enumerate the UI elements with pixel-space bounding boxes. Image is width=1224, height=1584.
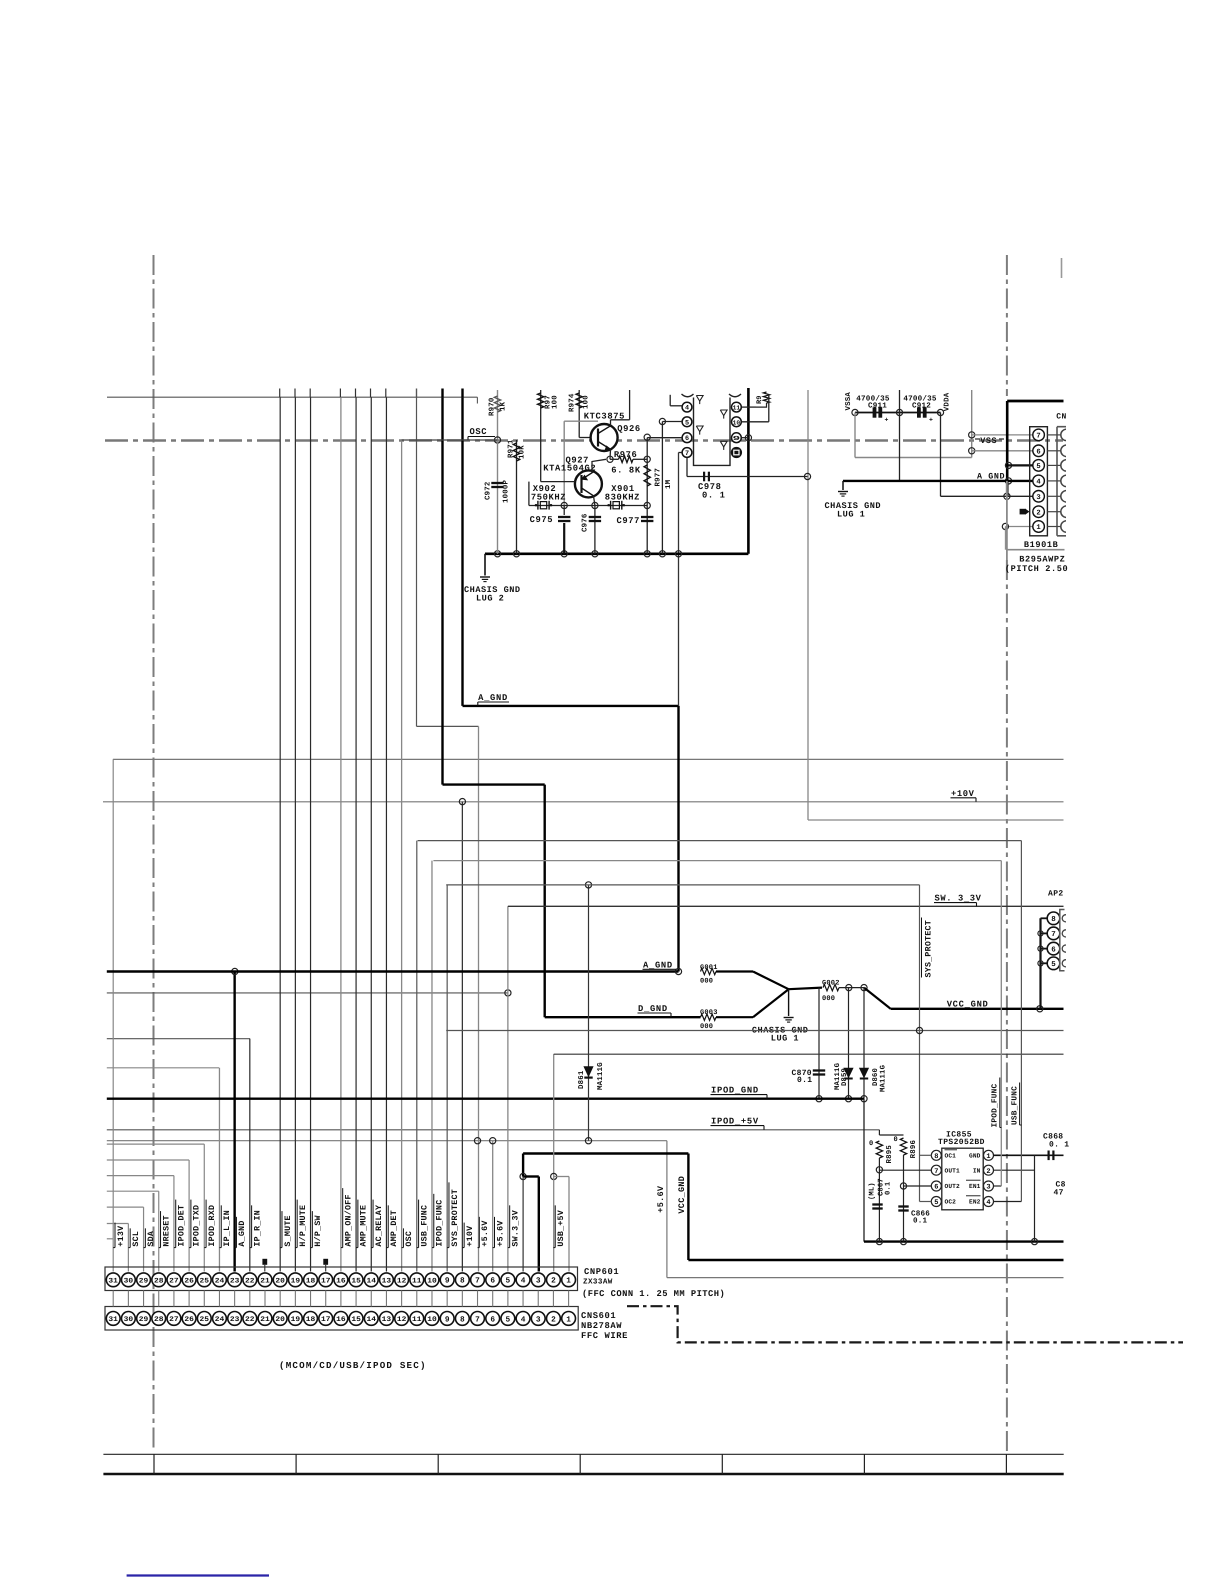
svg-text:OUT2: OUT2 xyxy=(945,1183,960,1190)
svg-text:AC_RELAY: AC_RELAY xyxy=(375,1205,384,1247)
svg-text:000: 000 xyxy=(700,978,713,986)
svg-text:EN2: EN2 xyxy=(969,1199,981,1206)
svg-text:0.1: 0.1 xyxy=(913,1217,928,1226)
svg-text:IPOD_FUNC: IPOD_FUNC xyxy=(436,1200,445,1247)
svg-text:14: 14 xyxy=(367,1316,377,1324)
svg-text:IPOD_FUNC: IPOD_FUNC xyxy=(991,1083,1000,1127)
svg-text:C976: C976 xyxy=(582,513,590,532)
svg-text:12: 12 xyxy=(397,1278,407,1286)
svg-text:6: 6 xyxy=(685,435,689,443)
svg-text:31: 31 xyxy=(108,1316,118,1324)
svg-text:CNS601: CNS601 xyxy=(581,1311,616,1321)
svg-text:15: 15 xyxy=(351,1278,361,1286)
svg-text:31: 31 xyxy=(108,1278,118,1286)
svg-text:0: 0 xyxy=(894,1136,899,1144)
svg-text:C912: C912 xyxy=(912,401,931,410)
svg-text:4: 4 xyxy=(986,1199,990,1207)
svg-text:16: 16 xyxy=(336,1316,346,1324)
svg-text:+: + xyxy=(885,417,889,424)
svg-text:AMP_DET: AMP_DET xyxy=(390,1210,399,1247)
svg-text:LUG 1: LUG 1 xyxy=(771,1034,799,1044)
svg-text:27: 27 xyxy=(169,1278,179,1286)
svg-text:5: 5 xyxy=(685,419,689,427)
svg-text:S_MUTE: S_MUTE xyxy=(284,1215,293,1246)
svg-text:USB_+5V: USB_+5V xyxy=(557,1210,566,1247)
svg-text:R977: R977 xyxy=(655,468,663,487)
svg-text:IPOD_TXD: IPOD_TXD xyxy=(193,1205,202,1247)
svg-text:R896: R896 xyxy=(910,1139,918,1158)
svg-text:28: 28 xyxy=(154,1316,164,1324)
svg-text:OUT1: OUT1 xyxy=(945,1167,960,1174)
svg-text:1000P: 1000P xyxy=(503,479,511,503)
svg-text:26: 26 xyxy=(184,1316,194,1324)
svg-text:0. 1: 0. 1 xyxy=(1049,1140,1069,1149)
svg-text:7: 7 xyxy=(475,1277,480,1286)
svg-text:12: 12 xyxy=(397,1316,407,1324)
svg-text:1: 1 xyxy=(566,1277,571,1286)
svg-text:IPOD_RXD: IPOD_RXD xyxy=(208,1205,217,1247)
svg-text:20: 20 xyxy=(275,1278,285,1286)
svg-text:OSC: OSC xyxy=(470,427,488,437)
svg-text:VCC_GND: VCC_GND xyxy=(677,1176,687,1214)
svg-text:11: 11 xyxy=(733,405,741,412)
svg-text:OC1: OC1 xyxy=(945,1153,957,1160)
svg-text:28: 28 xyxy=(154,1278,164,1286)
svg-text:C911: C911 xyxy=(868,401,887,410)
svg-text:CNP601: CNP601 xyxy=(584,1267,619,1277)
svg-text:LUG 1: LUG 1 xyxy=(837,510,865,520)
svg-text:SDA: SDA xyxy=(147,1231,156,1247)
svg-text:+5.6V: +5.6V xyxy=(496,1220,505,1246)
svg-text:C975: C975 xyxy=(530,515,554,525)
svg-text:2: 2 xyxy=(551,1315,556,1324)
svg-text:5: 5 xyxy=(1036,463,1040,471)
svg-text:10: 10 xyxy=(427,1278,437,1286)
svg-text:8: 8 xyxy=(934,1153,938,1161)
svg-text:R970: R970 xyxy=(489,397,497,416)
svg-text:Q926: Q926 xyxy=(617,424,641,434)
svg-text:17: 17 xyxy=(321,1316,331,1324)
svg-text:2: 2 xyxy=(551,1277,556,1286)
svg-text:22: 22 xyxy=(245,1278,255,1286)
svg-text:15: 15 xyxy=(351,1316,361,1324)
svg-text:8: 8 xyxy=(1051,915,1056,924)
svg-text:OC2: OC2 xyxy=(945,1199,957,1206)
svg-text:MA111G: MA111G xyxy=(597,1062,605,1090)
svg-text:GND: GND xyxy=(969,1153,981,1160)
svg-text:SCL: SCL xyxy=(132,1231,141,1247)
svg-text:18: 18 xyxy=(306,1316,316,1324)
svg-text:(PITCH 2.50: (PITCH 2.50 xyxy=(1005,564,1068,574)
svg-text:R971: R971 xyxy=(508,439,516,458)
svg-text:IPOD_DET: IPOD_DET xyxy=(178,1205,187,1247)
svg-text:VSSA: VSSA xyxy=(845,392,853,411)
svg-text:6. 8K: 6. 8K xyxy=(611,465,641,475)
svg-text:1: 1 xyxy=(1036,524,1041,532)
svg-text:CN: CN xyxy=(1056,412,1066,421)
svg-text:8: 8 xyxy=(460,1315,465,1324)
svg-text:SYS_PROTECT: SYS_PROTECT xyxy=(925,920,934,978)
svg-text:000: 000 xyxy=(822,995,835,1003)
svg-text:8: 8 xyxy=(460,1277,465,1286)
svg-text:000: 000 xyxy=(700,1023,713,1031)
svg-text:D859: D859 xyxy=(841,1068,849,1086)
svg-text:26: 26 xyxy=(184,1278,194,1286)
svg-text:AP2: AP2 xyxy=(1048,889,1064,898)
svg-text:24: 24 xyxy=(215,1278,225,1286)
svg-text:11: 11 xyxy=(412,1278,422,1286)
svg-text:7: 7 xyxy=(685,450,689,458)
svg-text:2: 2 xyxy=(1036,509,1040,517)
svg-text:4: 4 xyxy=(521,1315,526,1324)
svg-text:OSC: OSC xyxy=(405,1231,414,1247)
svg-text:+: + xyxy=(929,417,933,424)
svg-text:5: 5 xyxy=(506,1315,511,1324)
svg-text:9: 9 xyxy=(733,435,741,442)
svg-text:30: 30 xyxy=(124,1316,134,1324)
svg-text:(ML): (ML) xyxy=(868,1182,877,1200)
svg-text:17: 17 xyxy=(321,1278,331,1286)
svg-text:23: 23 xyxy=(230,1278,240,1286)
svg-text:6: 6 xyxy=(934,1184,938,1192)
svg-text:18: 18 xyxy=(306,1278,316,1286)
svg-text:1M: 1M xyxy=(665,479,673,489)
svg-text:27: 27 xyxy=(169,1316,179,1324)
svg-text:AMP_MUTE: AMP_MUTE xyxy=(360,1205,369,1247)
svg-text:R9: R9 xyxy=(756,395,764,404)
svg-text:0.1: 0.1 xyxy=(885,1181,893,1195)
svg-text:25: 25 xyxy=(200,1316,210,1324)
svg-text:7: 7 xyxy=(475,1315,480,1324)
svg-text:H/P_MUTE: H/P_MUTE xyxy=(298,1205,308,1247)
svg-text:(FFC CONN 1. 25 MM PITCH): (FFC CONN 1. 25 MM PITCH) xyxy=(582,1289,725,1299)
svg-text:C977: C977 xyxy=(617,516,641,526)
svg-text:10: 10 xyxy=(733,419,741,426)
svg-text:NRESET: NRESET xyxy=(162,1215,171,1246)
svg-text:VCC_GND: VCC_GND xyxy=(947,999,989,1009)
svg-text:LUG 2: LUG 2 xyxy=(476,594,504,604)
svg-text:FFC WIRE: FFC WIRE xyxy=(581,1331,628,1341)
svg-text:13: 13 xyxy=(382,1278,392,1286)
svg-text:7: 7 xyxy=(1051,931,1056,939)
svg-text:21: 21 xyxy=(260,1278,270,1286)
svg-text:6: 6 xyxy=(490,1315,495,1324)
svg-text:9: 9 xyxy=(445,1277,450,1286)
svg-text:22: 22 xyxy=(245,1316,255,1324)
svg-text:11: 11 xyxy=(412,1316,422,1324)
svg-text:(MCOM/CD/USB/IPOD SEC): (MCOM/CD/USB/IPOD SEC) xyxy=(279,1360,427,1371)
svg-text:100: 100 xyxy=(552,395,560,409)
svg-text:6: 6 xyxy=(1051,945,1056,954)
svg-text:3: 3 xyxy=(536,1277,541,1286)
svg-text:20: 20 xyxy=(275,1316,285,1324)
svg-text:A_GND: A_GND xyxy=(238,1220,247,1246)
svg-text:1: 1 xyxy=(566,1315,571,1324)
svg-text:VSS: VSS xyxy=(980,436,997,446)
svg-text:NB278AW: NB278AW xyxy=(581,1321,622,1331)
svg-text:3: 3 xyxy=(986,1184,990,1192)
svg-text:+5.6V: +5.6V xyxy=(481,1220,490,1246)
svg-text:A GND: A GND xyxy=(977,472,1005,482)
svg-text:19: 19 xyxy=(291,1316,301,1324)
svg-text:MA111G: MA111G xyxy=(879,1065,887,1092)
svg-text:29: 29 xyxy=(139,1316,149,1324)
svg-text:2: 2 xyxy=(986,1168,990,1176)
svg-text:7: 7 xyxy=(934,1168,938,1176)
svg-text:4: 4 xyxy=(685,405,689,413)
svg-text:IP_R_IN: IP_R_IN xyxy=(253,1210,262,1247)
svg-text:16: 16 xyxy=(336,1278,346,1286)
svg-text:TPS2052BD: TPS2052BD xyxy=(938,1138,985,1147)
svg-text:14: 14 xyxy=(367,1278,377,1286)
svg-text:B1901B: B1901B xyxy=(1024,540,1059,550)
svg-text:+5.6V: +5.6V xyxy=(656,1185,666,1213)
svg-text:5: 5 xyxy=(506,1277,511,1286)
svg-text:5: 5 xyxy=(1051,961,1056,969)
svg-text:R895: R895 xyxy=(886,1145,894,1164)
svg-text:B295AWPZ: B295AWPZ xyxy=(1019,554,1065,564)
svg-text:5: 5 xyxy=(934,1199,938,1207)
svg-text:SYS_PROTECT: SYS_PROTECT xyxy=(451,1189,460,1247)
svg-text:7: 7 xyxy=(1036,433,1040,441)
svg-text:1: 1 xyxy=(986,1153,990,1161)
svg-text:EN1: EN1 xyxy=(969,1183,981,1190)
svg-text:3: 3 xyxy=(536,1315,541,1324)
svg-text:ZX33AW: ZX33AW xyxy=(583,1278,613,1287)
svg-text:0. 1: 0. 1 xyxy=(702,490,726,500)
svg-text:21: 21 xyxy=(260,1316,270,1324)
svg-text:+13V: +13V xyxy=(117,1226,126,1247)
svg-text:10K: 10K xyxy=(519,445,527,459)
svg-text:AMP_ON/OFF: AMP_ON/OFF xyxy=(344,1194,354,1246)
svg-text:0: 0 xyxy=(869,1140,874,1148)
svg-text:100: 100 xyxy=(583,395,591,409)
svg-text:3: 3 xyxy=(1036,494,1040,502)
svg-text:24: 24 xyxy=(215,1316,225,1324)
svg-text:1K: 1K xyxy=(500,401,508,411)
svg-text:C972: C972 xyxy=(485,481,493,500)
svg-text:4: 4 xyxy=(1036,479,1041,487)
svg-text:0.1: 0.1 xyxy=(797,1076,812,1085)
svg-text:SW.3_3V: SW.3_3V xyxy=(511,1210,520,1247)
svg-text:29: 29 xyxy=(139,1278,149,1286)
svg-text:USB_FUNC: USB_FUNC xyxy=(420,1205,429,1247)
svg-text:VDDA: VDDA xyxy=(943,392,951,411)
svg-text:IP_L_IN: IP_L_IN xyxy=(223,1210,232,1247)
svg-text:47: 47 xyxy=(1054,1189,1064,1198)
svg-text:H/P_SW: H/P_SW xyxy=(313,1215,323,1246)
svg-text:6: 6 xyxy=(1036,449,1040,457)
svg-text:IN: IN xyxy=(973,1167,981,1174)
svg-text:USB_FUNC: USB_FUNC xyxy=(1011,1086,1020,1125)
svg-text:R974: R974 xyxy=(569,393,577,412)
svg-text:13: 13 xyxy=(382,1316,392,1324)
svg-text:9: 9 xyxy=(445,1315,450,1324)
svg-text:6: 6 xyxy=(490,1277,495,1286)
svg-text:23: 23 xyxy=(230,1316,240,1324)
svg-text:10: 10 xyxy=(427,1316,437,1324)
svg-text:4: 4 xyxy=(521,1277,526,1286)
svg-text:+10V: +10V xyxy=(466,1226,475,1247)
svg-text:19: 19 xyxy=(291,1278,301,1286)
svg-text:D861: D861 xyxy=(578,1070,586,1089)
svg-text:30: 30 xyxy=(124,1278,134,1286)
svg-text:25: 25 xyxy=(200,1278,210,1286)
